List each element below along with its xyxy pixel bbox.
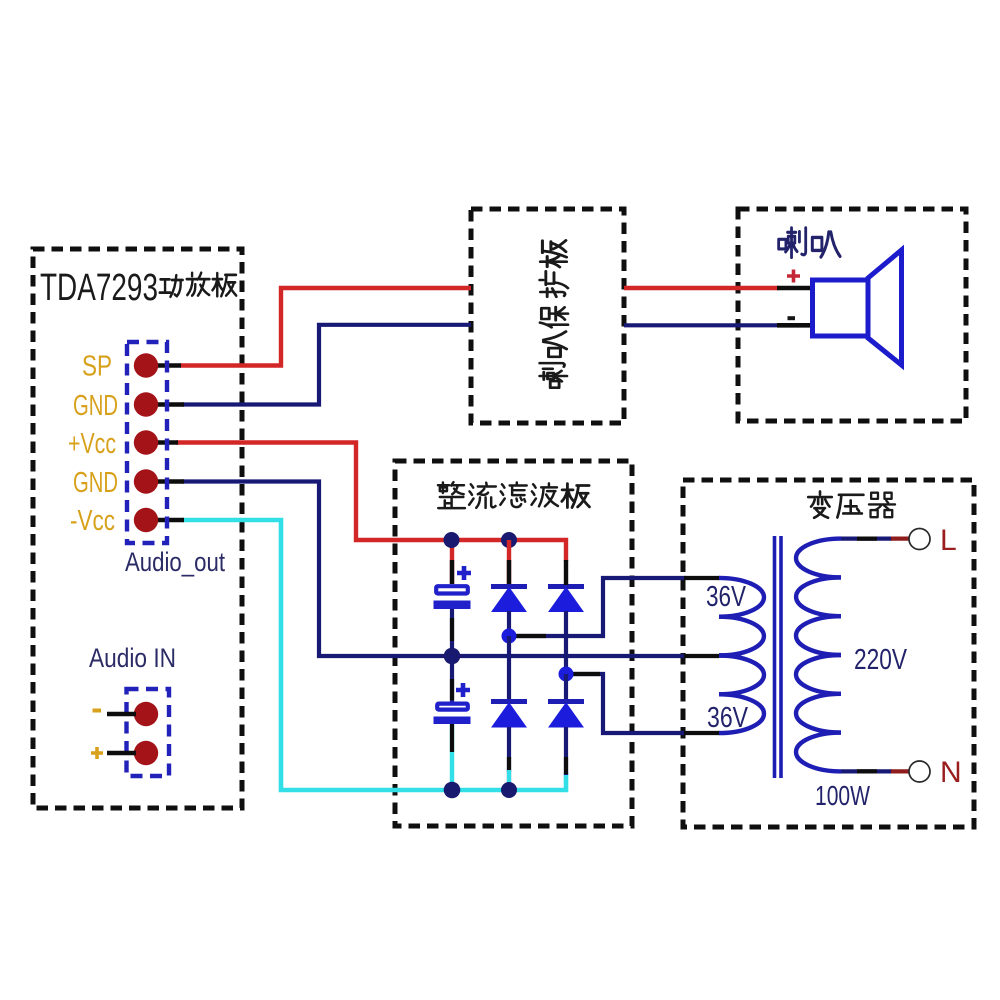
diode D3 upper lead xyxy=(507,636,511,699)
box: TDA7293 amplifier board xyxy=(33,249,242,808)
transformer core lines xyxy=(775,536,782,778)
diode D4 triangle xyxy=(549,703,583,727)
wire -Vcc black stub xyxy=(152,518,184,522)
svg-text:Audio_out: Audio_out xyxy=(125,547,225,577)
wire rectifier - output to bottom 36V winding xyxy=(572,674,686,733)
wire primary top to L xyxy=(841,536,892,540)
primary winding cusp ticks xyxy=(823,577,841,732)
capacitor C1 lead lower xyxy=(450,609,454,656)
secondary winding lower 36V xyxy=(719,656,764,734)
wire rectifier - output black stub xyxy=(573,672,600,676)
junction dot bottom rail at D3 xyxy=(501,782,517,798)
capacitor C2 top plate xyxy=(437,704,468,710)
label 喇叭保护板 (protection board title, vertical) xyxy=(540,240,568,387)
capacitor C2 lead lower xyxy=(450,724,454,790)
capacitor C2 lead upper xyxy=(450,656,454,702)
svg-text:+Vcc: +Vcc xyxy=(68,428,116,460)
secondary winding cusp ticks xyxy=(719,617,737,695)
wire SP red: pin to protection board xyxy=(180,288,471,366)
diode D3 lower lead xyxy=(507,727,511,790)
junction dot D1-D3 xyxy=(502,629,517,644)
wire protection to speaker red xyxy=(624,286,779,290)
wire primary bottom to N xyxy=(841,769,892,773)
pin IN+ stub xyxy=(107,751,136,755)
speaker horn xyxy=(868,250,902,365)
svg-text:GND: GND xyxy=(73,390,118,422)
svg-text:-Vcc: -Vcc xyxy=(70,505,115,537)
pin IN- stub xyxy=(107,712,136,716)
primary winding 220V xyxy=(796,539,841,772)
terminal L circle xyxy=(909,529,930,550)
pin +Vcc xyxy=(134,430,158,454)
diode D2 lower lead xyxy=(564,611,568,674)
diode D1 top lead xyxy=(507,540,511,585)
wire speaker - black stub xyxy=(777,323,813,328)
wire middle rail black segment to center tap xyxy=(684,654,719,658)
secondary winding upper 36V xyxy=(719,578,764,656)
diode D1 cathode bar xyxy=(491,584,527,589)
speaker driver rectangle xyxy=(813,280,869,336)
diode D4 lower lead xyxy=(564,727,568,775)
svg-text:36V: 36V xyxy=(707,702,749,734)
box: speaker xyxy=(738,209,966,421)
pin SP xyxy=(134,353,158,377)
junction dot top rail at D1 xyxy=(501,532,517,548)
speaker plus mark xyxy=(787,270,800,283)
wire speaker + black stub xyxy=(777,286,813,291)
box: rectifier filter board xyxy=(395,461,632,826)
wire GND2 navy: pin to protection board xyxy=(182,325,471,405)
svg-text:TDA7293: TDA7293 xyxy=(40,267,158,309)
label IN- minus xyxy=(93,709,102,713)
wire bottom 36V entry black xyxy=(684,731,720,735)
junction dot top rail at C1 xyxy=(444,532,460,548)
capacitor C1 top plate xyxy=(436,586,468,593)
connector Audio IN outline xyxy=(127,689,170,776)
wire +Vcc black stub xyxy=(152,440,178,444)
diode D2 lead upper black xyxy=(564,560,568,585)
label 整流滤波板 (rectifier board title) xyxy=(438,482,589,508)
connector Audio_out outline xyxy=(127,342,167,543)
pin GND2 xyxy=(134,392,158,416)
terminal N circle xyxy=(909,761,930,782)
wire rectifier + output to top 36V winding xyxy=(517,578,686,636)
pin -Vcc xyxy=(134,508,158,532)
svg-text:100W: 100W xyxy=(815,780,870,811)
label 喇叭 (speaker title) xyxy=(779,228,840,258)
diode D3 cathode bar xyxy=(491,699,527,704)
wire GND4 black stub xyxy=(152,479,184,483)
svg-text:220V: 220V xyxy=(854,644,908,676)
wire -Vcc cyan down to bottom rail xyxy=(182,520,566,790)
diode D1 triangle xyxy=(492,588,526,612)
label IN+ plus xyxy=(91,747,103,759)
capacitor C1 lead upper xyxy=(450,540,454,584)
svg-text:N: N xyxy=(940,756,962,789)
diode D1 lower lead xyxy=(507,611,511,636)
capacitor C1 bottom plate xyxy=(434,601,471,610)
label 功放板 (amp board title) xyxy=(160,273,236,297)
svg-text:36V: 36V xyxy=(706,581,747,613)
diode D4 upper lead xyxy=(564,674,568,699)
wire SP black stub xyxy=(152,363,181,367)
box: speaker protection board xyxy=(471,209,624,423)
pin IN- xyxy=(134,702,158,726)
speaker minus mark xyxy=(788,316,796,320)
svg-text:GND: GND xyxy=(73,467,118,499)
svg-text:Audio IN: Audio IN xyxy=(89,643,176,673)
diode D4 cathode bar xyxy=(548,699,584,704)
junction dot D2-D4 xyxy=(559,667,574,682)
pin GND4 xyxy=(134,469,158,493)
box: transformer xyxy=(683,480,974,827)
capacitor C2 bottom plate xyxy=(434,717,471,725)
diode D2 cathode bar xyxy=(548,584,584,589)
wire GND4 navy down to middle rail xyxy=(182,482,686,657)
capacitor C1 plus sign xyxy=(457,566,471,580)
label 变压器 (transformer title) xyxy=(808,491,895,517)
wire rectifier + output black stub at junction xyxy=(515,634,546,638)
wire GND2 black stub xyxy=(152,402,184,406)
pin IN+ xyxy=(134,741,158,765)
wire top 36V entry black xyxy=(684,576,720,580)
wire protection to speaker navy xyxy=(624,323,779,327)
junction dot bottom rail at C2 xyxy=(444,782,461,799)
junction dot middle rail at C2 xyxy=(444,648,461,665)
wire +Vcc red down to rectifier rail xyxy=(176,443,566,562)
svg-text:L: L xyxy=(940,524,957,557)
svg-text:SP: SP xyxy=(82,351,112,383)
diode D2 triangle xyxy=(549,588,583,612)
diode D3 triangle xyxy=(492,703,526,727)
capacitor C2 plus sign xyxy=(456,683,470,697)
